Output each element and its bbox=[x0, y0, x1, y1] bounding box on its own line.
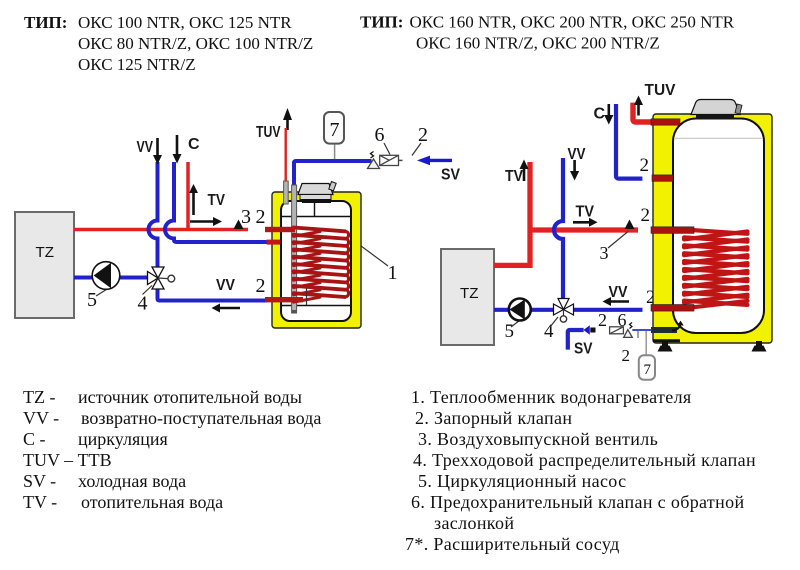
svg-text:TV: TV bbox=[576, 204, 595, 221]
svg-text:TUV: TUV bbox=[645, 82, 676, 99]
svg-text:3: 3 bbox=[600, 243, 609, 263]
svg-text:TZ: TZ bbox=[36, 244, 55, 261]
svg-text:холодная вода: холодная вода bbox=[78, 471, 186, 491]
svg-text:4: 4 bbox=[138, 293, 148, 315]
svg-text:7*. Расширительный сосуд: 7*. Расширительный сосуд bbox=[405, 534, 620, 554]
svg-text:5: 5 bbox=[505, 321, 515, 342]
svg-text:5. Циркуляционный насос: 5. Циркуляционный насос bbox=[418, 471, 626, 491]
svg-text:5: 5 bbox=[87, 289, 97, 311]
svg-text:заслонкой: заслонкой bbox=[434, 513, 514, 533]
svg-text:отопительная вода: отопительная вода bbox=[81, 492, 223, 512]
svg-text:6. Предохранительный клапан с: 6. Предохранительный клапан с обратной bbox=[411, 492, 744, 512]
svg-text:3. Воздуховыпускной вентиль: 3. Воздуховыпускной вентиль bbox=[418, 429, 658, 449]
svg-text:VV -: VV - bbox=[23, 408, 59, 428]
svg-text:C: C bbox=[594, 106, 606, 123]
svg-text:2: 2 bbox=[641, 205, 651, 226]
svg-text:ОКС 160 NTR/Z, ОКС 200 NTR/Z: ОКС 160 NTR/Z, ОКС 200 NTR/Z bbox=[416, 34, 660, 53]
svg-text:4. Трехходовой распределительн: 4. Трехходовой распределительный клапан bbox=[413, 450, 756, 470]
svg-text:ОКС 80 NTR/Z, ОКС 100 NTR/Z: ОКС 80 NTR/Z, ОКС 100 NTR/Z bbox=[78, 34, 313, 53]
svg-text:SV: SV bbox=[574, 341, 593, 358]
svg-text:C -: C - bbox=[23, 429, 46, 449]
svg-text:источник отопительной воды: источник отопительной воды bbox=[78, 387, 302, 407]
svg-text:циркуляция: циркуляция bbox=[78, 429, 168, 449]
svg-text:SV -: SV - bbox=[23, 471, 56, 491]
svg-text:1: 1 bbox=[388, 262, 398, 284]
svg-text:TUV: TUV bbox=[256, 124, 281, 141]
svg-text:7: 7 bbox=[330, 119, 340, 141]
svg-text:SV: SV bbox=[441, 167, 460, 184]
svg-text:TV: TV bbox=[208, 192, 226, 209]
svg-text:2: 2 bbox=[622, 346, 631, 365]
svg-text:VV: VV bbox=[609, 284, 628, 301]
svg-text:7: 7 bbox=[644, 362, 652, 378]
svg-text:TV -: TV - bbox=[23, 492, 57, 512]
svg-text:ОКС 100 NTR, ОКС 125 NTR: ОКС 100 NTR, ОКС 125 NTR bbox=[78, 13, 292, 32]
svg-text:ОКС 160 NTR, ОКС 200 NTR, ОКС: ОКС 160 NTR, ОКС 200 NTR, ОКС 250 NTR bbox=[410, 13, 735, 32]
svg-text:C: C bbox=[188, 136, 200, 153]
svg-text:TZ -: TZ - bbox=[23, 387, 55, 407]
svg-text:2. Запорный клапан: 2. Запорный клапан bbox=[415, 408, 572, 428]
svg-text:2: 2 bbox=[256, 206, 266, 228]
svg-text:VV: VV bbox=[216, 277, 235, 294]
svg-text:1. Теплообменник водонагревате: 1. Теплообменник водонагревателя bbox=[411, 387, 692, 407]
svg-text:2: 2 bbox=[256, 275, 266, 297]
svg-text:VV: VV bbox=[137, 139, 154, 156]
svg-text:2: 2 bbox=[418, 124, 428, 146]
svg-text:2: 2 bbox=[598, 310, 607, 330]
svg-text:TV: TV bbox=[505, 168, 523, 185]
svg-text:TZ: TZ bbox=[460, 285, 479, 302]
svg-text:возвратно-поступательная вода: возвратно-поступательная вода bbox=[81, 408, 321, 428]
svg-text:6: 6 bbox=[375, 124, 385, 146]
svg-text:2: 2 bbox=[640, 155, 650, 176]
svg-text:ОКС 125 NTR/Z: ОКС 125 NTR/Z bbox=[78, 55, 196, 74]
svg-text:VV: VV bbox=[568, 146, 586, 163]
svg-text:TUV – ТТВ: TUV – ТТВ bbox=[23, 450, 112, 470]
svg-text:ТИП:: ТИП: bbox=[24, 13, 67, 32]
svg-text:3: 3 bbox=[241, 206, 251, 228]
svg-text:ТИП:: ТИП: bbox=[360, 13, 403, 32]
